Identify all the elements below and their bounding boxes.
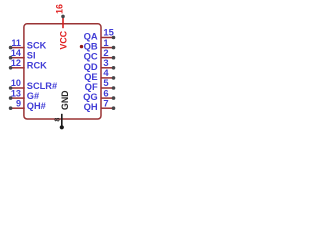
pin-1 marker dot next to QB — [80, 45, 83, 48]
node (pin 2 terminal dot) — [112, 56, 116, 60]
node (pin 8 terminal dot) — [60, 125, 64, 129]
node (pin 16 terminal dot) — [61, 15, 65, 19]
node (pin 12 terminal dot) — [9, 66, 13, 70]
pin 1 QB — [84, 37, 116, 52]
svg-text:12: 12 — [11, 58, 21, 68]
svg-text:11: 11 — [11, 38, 21, 48]
node (pin 4 terminal dot) — [112, 76, 116, 80]
pin 3 QD — [84, 57, 116, 72]
pin 8 GND (ground, bottom) — [53, 90, 70, 129]
svg-text:8: 8 — [53, 118, 62, 122]
svg-text:SCK: SCK — [27, 41, 47, 51]
node (pin 10 terminal dot) — [9, 86, 13, 90]
wire (pin 6 stub) — [101, 97, 114, 99]
pin 10 SCLR# — [9, 78, 57, 91]
svg-text:RCK: RCK — [27, 61, 47, 71]
node (pin 13 terminal dot) — [9, 96, 13, 100]
pin 4 QE — [84, 67, 115, 82]
pin 5 QF — [85, 77, 116, 92]
pin 16 VCC (power, top) — [54, 4, 68, 49]
wire (pin 15 stub) — [101, 37, 114, 39]
node (pin 6 terminal dot) — [112, 96, 116, 100]
wire (pin 16 stub) — [62, 16, 64, 28]
pin 15 QA — [84, 27, 116, 42]
svg-text:16: 16 — [54, 4, 64, 14]
wire (pin 8 stub) — [61, 114, 63, 128]
wire (pin 10 stub) — [11, 87, 25, 89]
svg-text:9: 9 — [16, 98, 21, 108]
svg-text:QH#: QH# — [27, 101, 46, 111]
svg-text:7: 7 — [103, 97, 108, 108]
svg-text:13: 13 — [11, 88, 21, 98]
pin 6 QG — [83, 87, 115, 102]
pin 14 SI — [9, 48, 36, 61]
wire (pin 3 stub) — [101, 67, 114, 69]
wire (pin 14 stub) — [11, 57, 25, 59]
node (pin 14 terminal dot) — [9, 56, 13, 60]
wire (pin 5 stub) — [101, 87, 114, 89]
svg-text:VCC: VCC — [58, 30, 68, 49]
node (pin 9 terminal dot) — [9, 106, 13, 110]
svg-text:SCLR#: SCLR# — [27, 81, 57, 91]
svg-text:14: 14 — [11, 48, 22, 58]
node (pin 1 terminal dot) — [112, 46, 116, 50]
pin 12 RCK — [9, 58, 47, 71]
pin 11 SCK — [9, 38, 47, 51]
pin 13 G# — [9, 88, 39, 101]
node (pin 5 terminal dot) — [112, 86, 116, 90]
node (pin 11 terminal dot) — [9, 46, 13, 50]
node (pin 7 terminal dot) — [112, 106, 116, 110]
svg-text:QH: QH — [84, 101, 98, 112]
pin 9 QH# — [9, 98, 46, 111]
wire (pin 9 stub) — [11, 107, 25, 109]
IC body U1 (shift register outline) — [24, 24, 101, 119]
wire (pin 13 stub) — [11, 97, 25, 99]
svg-text:SI: SI — [27, 51, 36, 61]
wire (pin 4 stub) — [101, 77, 114, 79]
svg-text:G#: G# — [27, 91, 39, 101]
pin 7 QH — [84, 97, 116, 112]
wire (pin 7 stub) — [101, 107, 114, 109]
node (pin 15 terminal dot) — [112, 36, 116, 40]
pin 2 QC — [84, 47, 116, 62]
wire (pin 2 stub) — [101, 57, 114, 59]
svg-text:10: 10 — [11, 78, 21, 88]
svg-text:GND: GND — [60, 90, 70, 110]
node (pin 3 terminal dot) — [112, 66, 116, 70]
wire (pin 11 stub) — [11, 47, 25, 49]
wire (pin 1 stub) — [101, 47, 114, 49]
wire (pin 12 stub) — [11, 67, 25, 69]
